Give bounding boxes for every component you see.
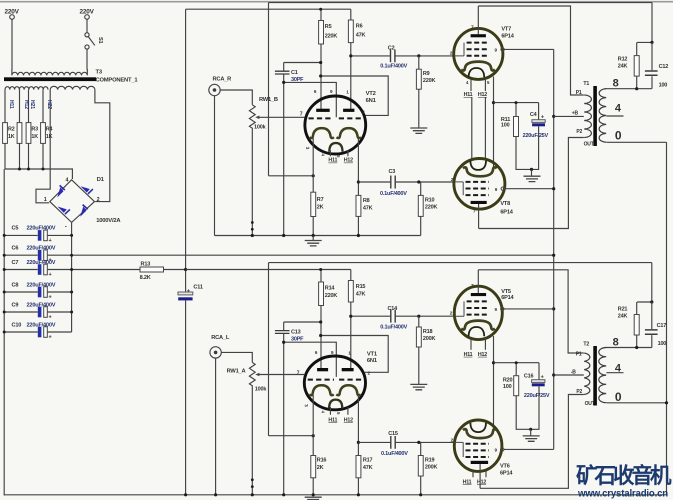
VT1 anode plate A [317,368,328,371]
svg-text:8.2K: 8.2K [140,275,151,281]
R5 bottom wire to tube anode pin 6 [320,44,322,109]
svg-text:R13: R13 [141,261,151,267]
VT2 cathode B pin wire [357,139,359,196]
grid2 direct-coupling hook lower [321,336,389,373]
svg-text:H11: H11 [464,92,473,98]
feedback top line lower [269,262,652,264]
svg-text:C7: C7 [12,260,19,266]
tube VT8 6P14 envelope (inverted) [454,159,505,210]
svg-text:6N1: 6N1 [366,98,377,104]
VT5 anode riser [477,270,479,293]
svg-text:2K: 2K [317,465,324,471]
VT2 heater arc [329,143,342,152]
svg-text:RCA_L: RCA_L [211,335,230,341]
bottom ground bus / border [4,494,666,496]
svg-text:220K: 220K [425,205,438,211]
grid2 leak line [284,82,337,117]
VT8 anode pin wire [478,204,480,229]
transformer T1 secondary winding [599,89,606,143]
tube VT6 6P14 envelope (inverted) [454,420,502,471]
svg-text:+: + [541,375,544,381]
VT8 anode plate [471,201,487,204]
C10 row wires [4,331,71,333]
svg-text:OUT: OUT [585,401,595,407]
capacitor C14 0.1uF/400V [391,310,395,323]
svg-text:C10: C10 [12,322,22,328]
svg-text:R12: R12 [618,56,628,62]
svg-text:47K: 47K [356,292,366,298]
capacitor C8 220uF/400V [38,287,42,298]
diode BR [80,206,86,216]
node B+ driver [184,268,187,271]
svg-text:220uF/400V: 220uF/400V [27,302,56,308]
resistor R11 100 [515,103,517,117]
AC terminal N [85,15,90,20]
tube VT1 6N1 envelope [304,356,365,410]
secondary tap 0 wire lower [607,402,667,404]
resistor R3 [26,123,31,144]
svg-text:www.crystalradio.cn: www.crystalradio.cn [577,489,668,500]
svg-text:7: 7 [300,112,303,118]
R18 ground [418,347,420,384]
resistor R18 200K [418,316,420,327]
svg-text:47K: 47K [363,206,373,212]
svg-text:R8: R8 [363,198,370,204]
VT7 screen pin [501,48,504,51]
svg-text:100: 100 [658,341,667,347]
VT5 heater pin wires [471,338,485,350]
VT7 heater pin wires [471,79,485,91]
C7 row wires + R13 feed [4,269,140,271]
svg-text:2K: 2K [317,205,324,211]
wire switch to primary [86,49,88,69]
capacitor C1 30PF [275,71,290,74]
svg-text:0.1uF/400V: 0.1uF/400V [380,191,407,197]
VT8 heater arc (top) [470,161,486,170]
VT7 heater arc [469,68,485,77]
svg-text:0.1uF/400V: 0.1uF/400V [380,63,407,69]
svg-text:220uF/400V: 220uF/400V [27,282,56,288]
transformer T1 core [593,86,597,146]
C1 stem upper [283,63,285,72]
VT8 grid rail [454,182,463,195]
svg-text:-: - [65,223,67,230]
diode TR [81,186,90,192]
VT1 cathode B pin wire [357,396,359,456]
tube VT7 6P14 envelope [454,28,503,79]
switch S1 [85,33,89,37]
transformer T3 core [4,77,96,81]
svg-text:VT7: VT7 [501,26,511,32]
filter capacitor bank C5..C10 [4,235,554,332]
svg-text:2: 2 [97,197,100,203]
VT6 anode plate [471,461,488,464]
transformer T2 primary winding [584,353,590,395]
capacitor C17 [651,302,653,348]
capacitor C2 0.1uF/400V [391,50,395,63]
diode BL [58,207,67,213]
VT2 cathode B arc [337,128,361,138]
VT1 heater pin wires [330,407,348,415]
svg-text:8: 8 [613,337,619,349]
VT6 grid dashes [466,443,489,445]
svg-text:C2: C2 [388,46,395,52]
svg-text:C12: C12 [659,64,669,70]
R20 C16 ground return [516,386,539,429]
svg-text:H11: H11 [464,352,473,358]
VT7 cathode pin wire [493,77,495,103]
coupling line C14 from anode2 [351,315,454,317]
svg-text:H11: H11 [463,479,472,485]
svg-text:220K: 220K [325,293,338,299]
svg-text:R19: R19 [425,457,435,463]
svg-text:100k: 100k [254,125,267,131]
svg-text:0.1uF/400V: 0.1uF/400V [381,451,408,457]
watermark crystalradio [576,463,672,488]
svg-text:RCA_R: RCA_R [213,77,232,83]
svg-text:C3: C3 [389,169,396,175]
resistor R14 220K [319,282,324,306]
VT2 cathode A arc [310,128,334,138]
svg-text:H11: H11 [8,100,14,109]
svg-text:RW1_A: RW1_A [227,368,246,374]
svg-text:VT6: VT6 [500,463,510,469]
coupling line C2 from anode2 [351,55,454,57]
resistor R15 47K [348,281,353,303]
svg-text:200K: 200K [425,465,438,471]
shared cathode node lower [493,363,495,431]
svg-text:24K: 24K [618,313,628,319]
potentiometer RW1_A 100k [249,362,255,493]
C5 row wires [4,234,71,236]
VT6 screen pin [501,448,504,451]
diode TL [57,185,93,216]
svg-text:220V: 220V [5,9,20,16]
VT5 cathode arc [461,321,495,330]
svg-text:100: 100 [503,384,512,390]
grid2 leak line lower [284,342,337,377]
svg-text:+: + [49,272,52,278]
cathode network line [494,102,539,104]
resistor R12 24K [636,42,638,55]
VT5 anode plate [471,293,486,296]
C1 top node line [284,62,321,64]
svg-text:R10: R10 [425,198,435,204]
svg-text:R17: R17 [363,457,373,463]
svg-text:200K: 200K [423,336,436,342]
VT1 cathode B arc [336,385,360,395]
R17 bottom wire [357,478,359,494]
svg-text:P2: P2 [576,129,582,135]
R9 ground [418,89,420,128]
svg-text:VT2: VT2 [366,91,376,97]
right cap bus [71,235,73,332]
VT2 grid B dashes [339,117,363,119]
tube VT5 6P14 envelope [454,286,502,339]
HV winding right tap wire to bridge right vertex [95,90,110,202]
VT5 screen pin [501,307,504,310]
junction dots cap bank [3,234,73,334]
svg-text:S1: S1 [97,37,103,44]
svg-text:C15: C15 [388,431,398,437]
VT6 grid rail [454,442,463,457]
C9 row wires [4,311,71,313]
upper ground bus [215,235,421,237]
svg-text:+: + [187,288,190,294]
lower ground symbol (clipped) [305,497,322,499]
VT2 cathode A pin wire [312,138,314,192]
svg-text:R18: R18 [423,329,433,335]
svg-text:8: 8 [613,78,619,90]
svg-text:100k: 100k [255,386,268,392]
svg-text:R20: R20 [503,377,513,383]
RW1_B wiper arrow to grid pin 7 [258,116,305,118]
capacitor C6 220uF/400V [38,250,42,261]
driver B+ line lower [186,269,351,271]
resistor R8 47K [356,195,361,216]
RCA_R input jack [209,84,220,95]
capacitor C9 220uF/400V [38,307,42,318]
svg-text:220uF/400V: 220uF/400V [27,260,56,266]
svg-text:220uF/25V: 220uF/25V [523,133,549,139]
svg-text:C1: C1 [291,70,298,76]
feedback left vertical [268,3,270,176]
VT2 anode plate A [316,109,330,112]
RCA_L ground drop [215,358,217,493]
right border common wire [666,142,668,495]
svg-text:VT1: VT1 [367,351,378,357]
VT5 grid rail [454,301,464,316]
svg-text:D1: D1 [97,177,105,183]
capacitor C7 220uF/400V [38,264,42,275]
svg-text:OUT: OUT [584,141,594,147]
feedback to cathode line [269,175,314,177]
VT1 cathode A pin wire [312,395,314,456]
svg-text:H11: H11 [328,158,337,164]
svg-text:1K: 1K [46,134,53,140]
resistor R2 [17,123,22,144]
secondary tap 8 wire lower [605,347,652,349]
svg-text:6P14: 6P14 [501,295,514,301]
svg-text:COMPONENT_1: COMPONENT_1 [96,78,139,84]
anode line VT7 to T1 P1 [478,6,584,95]
feedback network lower [637,263,652,302]
capacitor C13 30PF [275,331,290,334]
svg-text:-B: -B [571,370,576,376]
left ground bus down the left edge [3,169,5,496]
svg-text:220K: 220K [423,78,436,84]
capacitor C10 220uF/400V [38,327,42,338]
RCA_L signal wire to pot [221,352,252,362]
VT1 grid A dashes [308,379,334,381]
svg-text:机: 机 [650,464,672,488]
svg-text:220uF/400V: 220uF/400V [27,322,56,328]
svg-text:4: 4 [66,178,69,184]
svg-text:C5: C5 [12,226,19,232]
svg-text:6P14: 6P14 [500,470,513,476]
VT6 cathode arc (top) [463,429,497,438]
svg-text:R15: R15 [356,284,366,290]
svg-text:H22: H22 [46,100,52,109]
svg-text:C8: C8 [12,282,19,288]
svg-text:C17: C17 [657,323,667,329]
svg-text:H12: H12 [477,479,486,485]
VT7 cathode arc [461,62,495,71]
svg-text:C14: C14 [388,306,399,312]
R11 C4 ground return [516,126,539,169]
svg-text:220K: 220K [325,34,338,40]
C1 stem lower + ground drop [283,74,285,235]
secondary tap 0 wire [607,141,667,143]
resistor R19 200K [420,442,422,455]
svg-text:H12: H12 [344,158,353,164]
secondary tap 4 stub lower [606,372,623,374]
RCA_R ground drop [214,96,216,236]
anode line VT6 to T2 winding end [480,395,584,489]
capacitor C16 220uF/25V [538,363,540,380]
shared cathode node [493,103,495,171]
VT6 heater pin wires [473,471,486,478]
VT1 heater arc [329,400,342,409]
VT7 grid dashes g1 g2 g3 [467,42,489,44]
VT7 anode riser to P1 line [477,6,479,34]
svg-text:T1: T1 [583,81,589,87]
svg-text:R21: R21 [618,306,628,312]
VT1 cathode A arc [309,385,333,395]
junction dots on heater bus [18,168,45,171]
capacitor C3 0.1uF/400V [391,176,395,189]
B+ rail vertical [553,49,555,449]
svg-text:T2: T2 [583,341,589,347]
VT6 anode pin wire [479,464,481,488]
svg-text:R9: R9 [423,71,430,77]
svg-text:30PF: 30PF [291,77,304,83]
VT2 grid A dashes [309,117,334,119]
svg-text:100: 100 [659,82,668,88]
svg-text:+B: +B [572,111,579,117]
svg-text:R7: R7 [317,197,324,203]
capacitor C4 220uF/25V [538,103,540,120]
svg-text:220uF/400V: 220uF/400V [27,226,56,232]
R15 bottom wire to VT1 anode pin 1 [350,302,352,368]
secondary tap 4 stub [606,115,623,117]
svg-text:+: + [49,295,52,301]
svg-text:6P14: 6P14 [501,34,514,40]
svg-text:6N1: 6N1 [367,358,378,364]
heater wires to VT8 [472,98,486,159]
svg-text:R14: R14 [325,286,336,292]
VT2 anode plate B [343,109,354,112]
svg-text:0.1uF/400V: 0.1uF/400V [380,325,407,331]
C13 stem lower + ground drop [283,334,285,494]
feedback network node line [637,3,652,43]
coupling line C3 from cathode2 [358,181,453,183]
T2 +B tap wire [554,374,584,376]
svg-text:1K: 1K [31,134,38,140]
svg-text:H12: H12 [23,100,29,109]
svg-text:R4: R4 [46,127,53,133]
VT7 grid rail [454,43,464,56]
svg-text:1K: 1K [8,134,15,140]
svg-text:R3: R3 [31,127,38,133]
top gray border [0,1,673,3]
wire terminal N to switch [86,19,88,32]
capacitor C15 0.1uF/400V [391,436,395,449]
svg-text:C11: C11 [193,285,202,291]
svg-text:R16: R16 [317,457,327,463]
ground [524,176,541,181]
ground [523,436,540,441]
svg-text:C16: C16 [524,373,534,379]
VT6 heater arc (top) [470,423,486,432]
svg-text:+: + [541,115,544,121]
resistor R20 100 [515,363,517,376]
secondary tap wires down to heater resistors [4,90,6,123]
resistor R4 [41,123,46,144]
HV winding left tap wire with jog to bridge left vertex [36,90,50,203]
transformer T1 primary winding [584,95,591,138]
R6 top riser [350,9,352,20]
VT2 heater pin wires [330,151,348,157]
svg-text:1: 1 [44,197,47,203]
resistor R21 24K [636,302,638,315]
resistor R10 220K [420,182,422,195]
svg-text:0: 0 [615,128,622,142]
resistor R1 [3,123,8,144]
R16 bottom wire [312,478,314,494]
svg-text:220uF/25V: 220uF/25V [524,393,550,399]
RCA_R signal wire to pot [220,90,252,105]
svg-text:220V: 220V [80,9,95,16]
secondary tap 8 wire [605,88,652,90]
RW1_A wiper arrow to grid pin 7 [258,374,304,376]
driver B+ line [186,8,351,10]
RCA_L input jack [210,347,221,358]
capacitor C5 220uF/400V [38,230,42,241]
svg-text:R2: R2 [8,127,15,133]
svg-text:VT8: VT8 [500,201,510,207]
resistor R5 220K [319,21,324,45]
VT1 anode plate B [342,368,354,371]
heater common bus [5,169,72,179]
svg-text:6P14: 6P14 [500,210,513,216]
VT5 heater arc [469,327,485,336]
svg-text:220uF/400V: 220uF/400V [27,246,56,252]
R8 bottom wire [357,216,359,235]
svg-text:R6: R6 [356,24,363,30]
C13 top node line [284,321,321,323]
svg-text:+: + [49,315,52,321]
R14 top riser [320,270,322,283]
potentiometer RW1_B 100k [249,105,255,236]
VT5 cathode pin wire [493,336,495,363]
svg-text:H21: H21 [29,100,35,109]
transformer T3 primary winding [12,69,87,75]
C13 stem upper [283,322,285,330]
C6 row wires + B+ rail to output stage [4,254,554,256]
upper ground symbol [312,236,314,241]
wire terminal L to primary [11,19,13,69]
svg-text:P2: P2 [576,389,582,395]
bridge bottom wire to cap bus [71,222,73,235]
anode line VT5 to T2 P1 [478,270,584,353]
VT5 grid dashes [467,300,489,302]
svg-text:H12: H12 [344,417,353,423]
feedback left vertical lower [268,263,270,436]
capacitor C12 [651,42,653,88]
svg-text:P1: P1 [576,90,582,96]
svg-text:C6: C6 [12,246,19,252]
